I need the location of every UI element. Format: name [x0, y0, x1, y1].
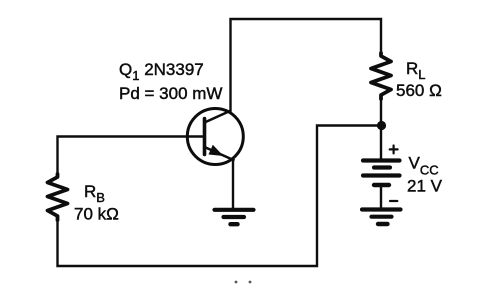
svg-text:Pd = 300 mW: Pd = 300 mW: [119, 84, 222, 103]
svg-text:Q1 2N3397: Q1 2N3397: [119, 60, 204, 83]
svg-text:VCC: VCC: [409, 154, 439, 178]
svg-text:560 Ω: 560 Ω: [396, 81, 442, 100]
svg-text:RL: RL: [406, 59, 426, 82]
svg-text:70 kΩ: 70 kΩ: [74, 205, 119, 224]
svg-text:RB: RB: [84, 182, 105, 205]
svg-text:21 V: 21 V: [407, 177, 443, 196]
